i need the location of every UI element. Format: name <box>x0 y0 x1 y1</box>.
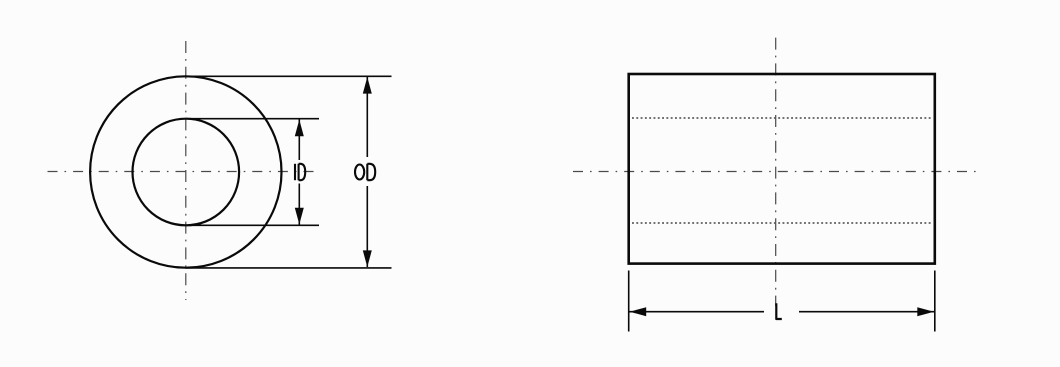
L right arrowhead <box>917 307 934 316</box>
ID bottom extension line <box>186 224 320 226</box>
OD dimension line upper segment <box>366 77 368 157</box>
ID top extension line <box>186 118 320 120</box>
OD dimension line lower segment <box>366 186 368 267</box>
label OD <box>355 164 375 180</box>
front view horizontal centerline <box>48 171 314 173</box>
hidden line (bore top) <box>632 117 932 119</box>
side view horizontal centerline <box>573 171 980 173</box>
front view vertical centerline <box>185 41 187 300</box>
label ID <box>295 164 305 180</box>
side view body rectangle <box>629 74 935 264</box>
ID dimension line upper segment <box>298 120 300 161</box>
outer circle (spacer OD) <box>90 76 281 267</box>
OD top extension line <box>186 75 392 77</box>
L dimension line right segment <box>799 311 934 313</box>
OD bottom extension line <box>186 267 392 269</box>
inner circle (spacer bore ID) <box>133 119 240 226</box>
ID top arrowhead <box>295 120 304 137</box>
label L <box>776 303 782 319</box>
L left arrowhead <box>630 307 647 316</box>
side view vertical centerline <box>775 38 777 306</box>
hidden line (bore bottom) <box>632 222 932 224</box>
L left extension line <box>628 271 630 332</box>
ID bottom arrowhead <box>295 208 304 225</box>
OD bottom arrowhead <box>363 250 372 267</box>
ID dimension line lower segment <box>298 184 300 225</box>
L dimension line left segment <box>630 311 765 313</box>
L right extension line <box>934 271 936 332</box>
OD top arrowhead <box>363 77 372 94</box>
